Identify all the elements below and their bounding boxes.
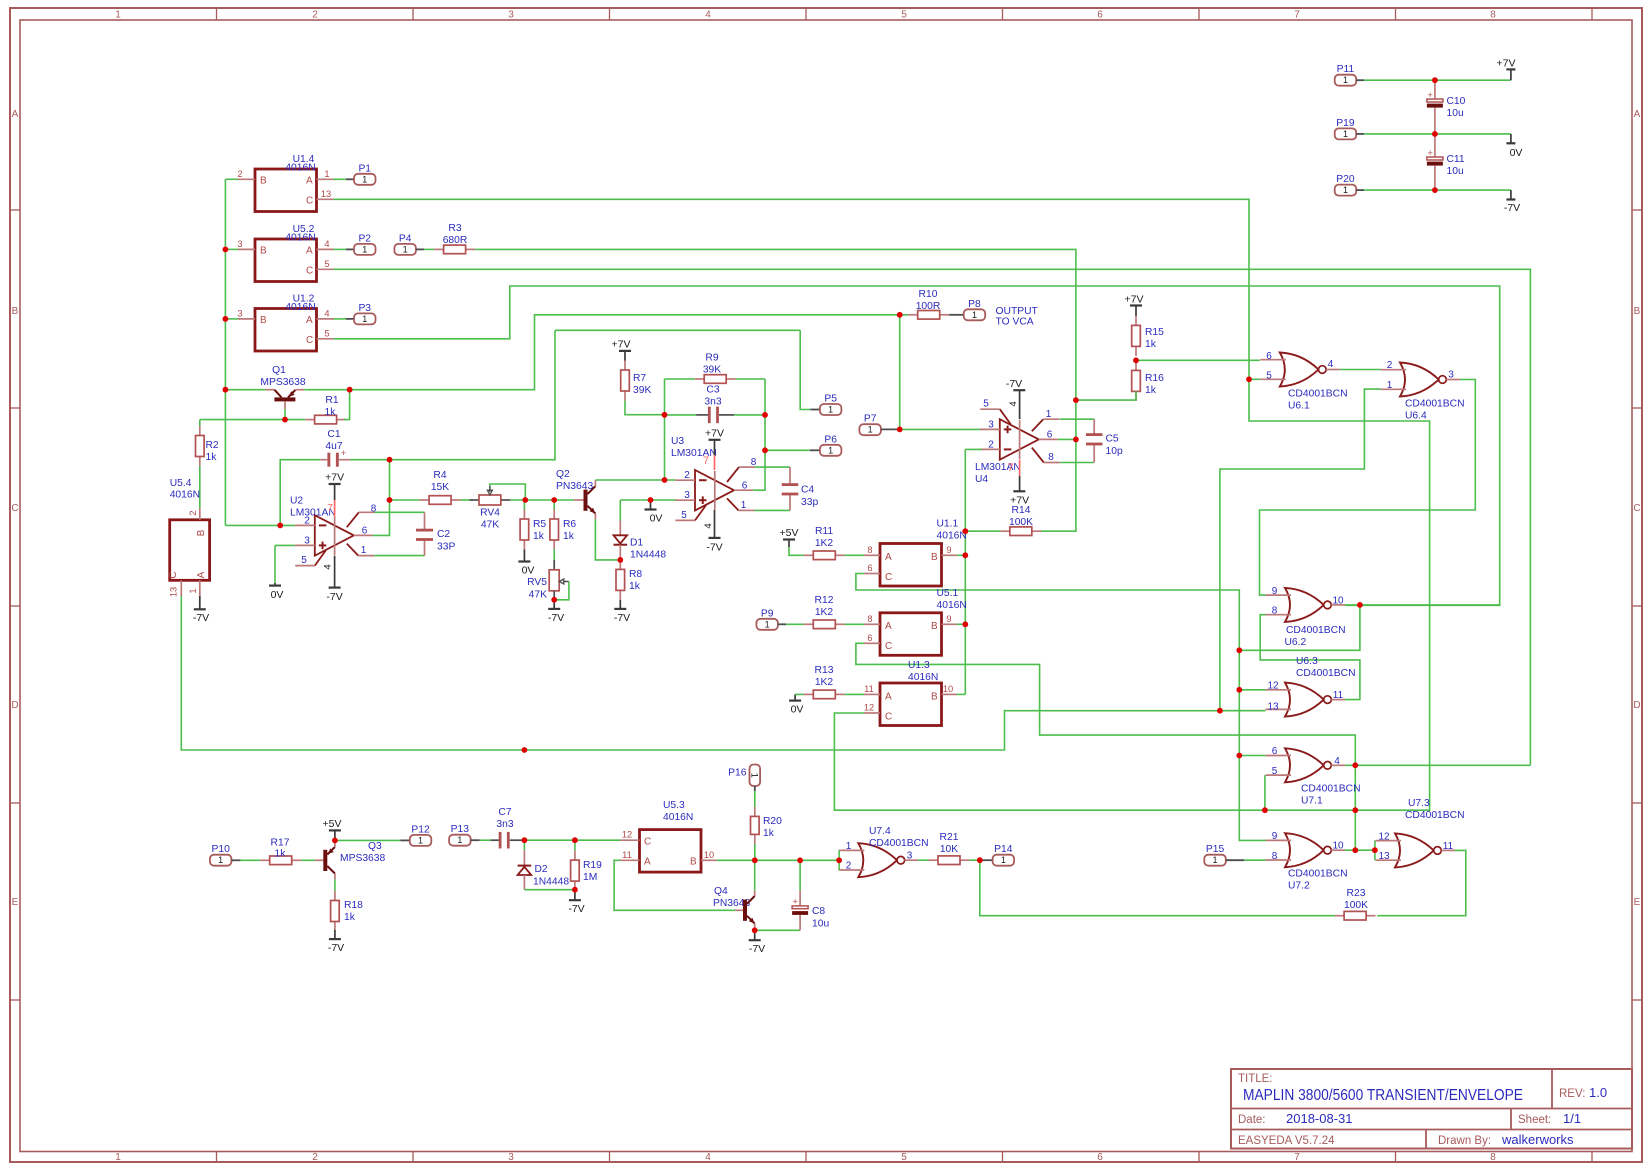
junction U5.1 pin9 <box>957 623 965 625</box>
svg-text:1: 1 <box>1343 185 1348 195</box>
svg-text:R16: R16 <box>1145 373 1164 384</box>
switch U5.1 4016N <box>880 613 942 656</box>
pad P11 <box>1335 75 1357 86</box>
junction dot: junction C11 bottom <box>1432 187 1438 193</box>
svg-text:7: 7 <box>327 502 333 514</box>
svg-text:8: 8 <box>1272 605 1278 616</box>
svg-text:R19: R19 <box>583 860 602 871</box>
nor gate U7.1 CD4001BCN <box>1285 748 1324 782</box>
wire U5.4 pin13 control net (to C7 / U6.3.13) <box>181 596 1265 750</box>
power +5V (Q3 emitter) <box>334 830 336 840</box>
svg-text:Date:: Date: <box>1238 1114 1266 1126</box>
junction dot: junction P6 tap <box>762 447 768 453</box>
wire P5 riser to C1 net <box>555 329 800 331</box>
svg-text:CD4001BCN: CD4001BCN <box>1301 784 1361 795</box>
resistor R19 1M <box>574 840 576 850</box>
svg-text:2: 2 <box>188 510 198 515</box>
svg-text:1.0: 1.0 <box>1589 1085 1607 1100</box>
svg-text:CD4001BCN: CD4001BCN <box>1288 389 1348 400</box>
resistor R10 100R <box>908 314 918 316</box>
title block <box>1231 1069 1632 1149</box>
svg-text:P5: P5 <box>824 394 837 405</box>
diode D2 1N4448 <box>523 840 525 850</box>
svg-text:-7V: -7V <box>568 903 584 915</box>
svg-text:2: 2 <box>1387 360 1393 371</box>
svg-text:1: 1 <box>1343 75 1348 85</box>
wire C1 to R4 node <box>350 459 390 461</box>
junction dot: junction U7.1 pin6 <box>1236 753 1242 759</box>
svg-text:B: B <box>12 306 19 317</box>
resistor R15 1k <box>1135 316 1137 326</box>
svg-text:4: 4 <box>705 1152 711 1163</box>
capacitor C10 10u <box>1434 80 1436 99</box>
svg-text:7: 7 <box>703 455 709 467</box>
svg-text:A: A <box>885 691 892 702</box>
junction dot: junction R15/R16 <box>1133 357 1139 363</box>
wire summing riser (U4.2/R14/U1.1.9/U5.1.9/U1.3.10) <box>964 555 966 694</box>
opamp U4 LM301AN <box>1000 419 1039 460</box>
junction dot: junction R19 bottom <box>572 887 578 893</box>
svg-text:A: A <box>306 315 313 326</box>
svg-text:C: C <box>306 266 313 277</box>
wire U1.4 pin13 long net (to U6.1.5 / U7 area) <box>334 199 1430 810</box>
wire U3 pin3 rail <box>620 499 677 501</box>
svg-text:U3: U3 <box>671 436 684 447</box>
pad P7 <box>859 424 881 435</box>
svg-text:4016N: 4016N <box>937 600 967 611</box>
svg-text:D: D <box>1633 700 1640 711</box>
wire C7 node to R19/U5.3.12 <box>524 839 620 841</box>
svg-text:1: 1 <box>1343 129 1348 139</box>
svg-text:3: 3 <box>508 10 514 21</box>
junction dot: junction D1/Q2/R8 <box>617 557 623 563</box>
wire U6.2 out branch down to control net <box>1239 605 1360 650</box>
svg-text:R12: R12 <box>815 595 834 606</box>
svg-text:33p: 33p <box>801 497 818 508</box>
junction dot: junction R14 left (summing riser) <box>962 528 968 534</box>
pad P4 <box>394 244 416 255</box>
svg-text:9: 9 <box>946 614 951 624</box>
svg-text:U6.1: U6.1 <box>1288 401 1310 412</box>
svg-text:P7: P7 <box>864 414 877 425</box>
junction dot: junction C3/R9 left <box>662 477 668 483</box>
pad P6 <box>810 449 820 451</box>
svg-text:-7V: -7V <box>614 612 630 624</box>
wire P19 to 0V <box>1364 133 1511 135</box>
svg-text:-7V: -7V <box>749 943 765 955</box>
svg-text:1: 1 <box>362 174 367 184</box>
svg-text:P1: P1 <box>358 163 371 174</box>
pad P14 <box>980 859 993 861</box>
svg-text:4: 4 <box>705 10 711 21</box>
svg-text:13: 13 <box>169 587 179 597</box>
svg-text:3: 3 <box>237 239 242 249</box>
junction U1.2 pin3 <box>225 318 238 320</box>
svg-text:PN3643: PN3643 <box>556 481 593 492</box>
svg-text:5: 5 <box>901 1152 907 1163</box>
nor gate U6.3 CD4001BCN <box>1285 683 1324 717</box>
svg-text:1N4448: 1N4448 <box>533 877 569 888</box>
svg-text:A: A <box>885 621 892 632</box>
svg-text:P16: P16 <box>728 767 747 778</box>
svg-text:3: 3 <box>684 490 690 501</box>
svg-text:12: 12 <box>1267 681 1279 692</box>
svg-text:U4: U4 <box>975 474 988 485</box>
wire RV4 wiper to track end <box>490 484 525 500</box>
svg-text:13: 13 <box>1267 701 1279 712</box>
wire U1.3 pin10 to summing riser end <box>957 693 965 695</box>
svg-text:8: 8 <box>1490 10 1496 21</box>
svg-text:7: 7 <box>1294 10 1300 21</box>
svg-text:8: 8 <box>867 545 872 555</box>
resistor R6 1k <box>553 500 555 510</box>
svg-text:3n3: 3n3 <box>496 819 513 830</box>
wire R15/R16 node to U6.1 pin6 <box>1136 359 1260 361</box>
svg-text:C11: C11 <box>1447 154 1465 165</box>
svg-text:R9: R9 <box>705 353 718 364</box>
svg-text:4: 4 <box>703 523 714 528</box>
junction U5.2 pin3 <box>225 248 238 250</box>
pad P15 <box>1204 855 1226 866</box>
junction U6.3 pin12 <box>1239 689 1265 691</box>
svg-text:P3: P3 <box>358 303 371 314</box>
svg-text:1k: 1k <box>629 581 641 592</box>
svg-text:C: C <box>11 503 18 514</box>
svg-text:-7V: -7V <box>326 591 342 603</box>
svg-text:3: 3 <box>988 419 994 430</box>
nor gate U7.3 CD4001BCN <box>1395 833 1434 867</box>
svg-text:P20: P20 <box>1336 174 1355 185</box>
nor gate U6.1 CD4001BCN <box>1280 353 1319 387</box>
junction dot: junction C11 top <box>1432 131 1438 137</box>
wire U5.2 pin5 long net riser <box>334 269 1531 765</box>
svg-text:P14: P14 <box>994 844 1013 855</box>
switch U1.1 4016N <box>880 544 942 587</box>
wire U7.3 out to R23 <box>1377 850 1466 915</box>
junction dot: junction C3/R9 right <box>762 412 768 418</box>
junction dot: junction P7 node <box>897 427 903 433</box>
svg-text:7: 7 <box>1007 462 1013 474</box>
svg-text:CD4001BCN: CD4001BCN <box>1288 869 1348 880</box>
svg-text:P10: P10 <box>211 844 230 855</box>
junction dot: junction Q4 emitter / C8 / -7V <box>752 927 758 933</box>
svg-text:-7V: -7V <box>706 541 722 553</box>
svg-text:1k: 1k <box>763 828 775 839</box>
svg-text:LM301AN: LM301AN <box>975 462 1021 473</box>
pad P12 <box>400 839 410 841</box>
power -7V (U2 pin4) <box>334 556 336 588</box>
resistor R18 1k <box>334 891 336 901</box>
nor gate U6.2 CD4001BCN <box>1285 588 1324 622</box>
svg-text:1: 1 <box>765 619 770 629</box>
svg-text:C: C <box>306 335 313 346</box>
svg-text:-7V: -7V <box>1504 202 1520 214</box>
pad P2 <box>334 248 347 250</box>
junction U6.1 pin5 (U1.4.13 net) <box>1249 378 1260 380</box>
svg-text:33P: 33P <box>437 542 455 553</box>
junction dot: junction U4 pin6/R3 riser <box>1073 437 1079 443</box>
wire U6.2 pin8 to U6.3 out (latch) <box>1260 615 1360 700</box>
svg-text:4016N: 4016N <box>285 302 315 313</box>
capacitor C11 10u <box>1434 134 1436 157</box>
svg-text:R13: R13 <box>815 665 834 676</box>
svg-text:U1.3: U1.3 <box>908 660 930 671</box>
power 0V (U3 pin3) <box>650 500 652 510</box>
wire U5.1 pin6 (to U7.1-out / U7.2-out column) <box>856 643 1355 850</box>
junction dot: junction C8 top <box>797 857 803 863</box>
wire U3 pin1 to C4 bottom <box>755 509 791 511</box>
junction dot: junction U7.1 pin5 / U1.4.13 net <box>1262 807 1268 813</box>
svg-text:1: 1 <box>362 314 367 324</box>
svg-text:4u7: 4u7 <box>325 441 342 452</box>
svg-text:Sheet:: Sheet: <box>1518 1114 1551 1126</box>
pad P19 <box>1335 128 1357 139</box>
wire U1.1 pin9 to summing riser <box>957 554 965 556</box>
wire U5.3 pin11 to Q4 base <box>614 860 735 910</box>
svg-text:U7.1: U7.1 <box>1301 796 1323 807</box>
capacitor C8 10u (polar) <box>799 890 801 906</box>
svg-text:C: C <box>168 571 179 578</box>
svg-text:13: 13 <box>1378 851 1390 862</box>
junction dot: junction U7.1 out / U5.1.6 column <box>1352 762 1358 768</box>
junction dot: junction R16/feedback riser <box>1073 397 1079 403</box>
svg-text:10u: 10u <box>812 919 829 930</box>
svg-text:walkerworks: walkerworks <box>1501 1132 1574 1147</box>
svg-text:10: 10 <box>1332 595 1344 606</box>
svg-text:-7V: -7V <box>1006 378 1022 390</box>
svg-text:4016N: 4016N <box>170 490 200 501</box>
svg-text:1k: 1k <box>1145 385 1157 396</box>
junction dot: junction C10 top <box>1432 77 1438 83</box>
power -7V (U5.4 pin1) <box>199 596 201 609</box>
svg-text:C: C <box>885 641 892 652</box>
power +7V (U4 pin7) <box>1019 460 1021 476</box>
svg-text:2: 2 <box>684 470 690 481</box>
svg-text:0V: 0V <box>271 589 284 601</box>
svg-text:1: 1 <box>115 1152 121 1163</box>
wire R3 to U4 feedback (net to R14) <box>475 249 1076 531</box>
svg-text:R3: R3 <box>448 223 461 234</box>
junction dot: junction U2 pin2 (summing node) <box>277 523 283 529</box>
svg-text:-7V: -7V <box>328 942 344 954</box>
svg-text:4: 4 <box>323 564 334 569</box>
svg-text:U2: U2 <box>290 496 303 507</box>
svg-text:RV5: RV5 <box>527 577 547 588</box>
svg-text:R11: R11 <box>815 526 833 537</box>
svg-text:U1.1: U1.1 <box>937 519 959 530</box>
svg-text:8: 8 <box>1048 452 1054 463</box>
svg-text:3n3: 3n3 <box>704 397 721 408</box>
svg-text:1: 1 <box>868 425 873 435</box>
svg-text:TITLE:: TITLE: <box>1238 1073 1273 1085</box>
svg-text:1k: 1k <box>275 849 287 860</box>
svg-text:C1: C1 <box>327 429 340 440</box>
pad P8 <box>949 314 964 316</box>
svg-text:C: C <box>306 196 313 207</box>
power -7V (RV5) <box>553 600 555 609</box>
junction dot: junction control net / U6.2 out branch <box>1236 647 1242 653</box>
svg-text:39K: 39K <box>633 385 651 396</box>
svg-text:B: B <box>690 857 697 868</box>
svg-text:U7.3: U7.3 <box>1408 798 1430 809</box>
svg-text:R10: R10 <box>919 289 938 300</box>
svg-text:P9: P9 <box>761 608 774 619</box>
switch U1.3 4016N <box>880 683 942 726</box>
wire U1.4 pin2 <box>225 178 238 180</box>
svg-text:1/1: 1/1 <box>1563 1111 1581 1126</box>
svg-text:1k: 1k <box>325 407 337 418</box>
resistor R16 1k <box>1135 361 1137 371</box>
wire U4 pin2 from R14 node <box>965 448 982 450</box>
svg-text:R7: R7 <box>633 373 646 384</box>
svg-text:1: 1 <box>972 310 977 320</box>
svg-text:R17: R17 <box>271 838 290 849</box>
opamp U2 LM301AN <box>315 515 354 556</box>
svg-text:LM301AN: LM301AN <box>671 448 717 459</box>
svg-text:A: A <box>885 552 892 563</box>
pad P9 <box>756 619 778 630</box>
pad P5 <box>800 330 810 409</box>
svg-text:15K: 15K <box>431 482 449 493</box>
svg-text:2: 2 <box>988 439 994 450</box>
svg-text:6: 6 <box>1097 10 1103 21</box>
svg-text:B: B <box>931 691 938 702</box>
diode D1 1N4448 <box>619 500 621 521</box>
svg-text:P8: P8 <box>968 299 981 310</box>
svg-text:2: 2 <box>846 861 852 872</box>
junction dot: junction Q1 base rail <box>282 417 288 423</box>
svg-text:10u: 10u <box>1447 108 1464 119</box>
svg-text:10: 10 <box>943 684 953 694</box>
svg-text:6: 6 <box>867 633 872 643</box>
junction dot: junction R6 tap <box>551 497 557 503</box>
wire Q2 collector to U3 pin2 <box>595 479 675 481</box>
svg-text:R5: R5 <box>533 519 546 530</box>
junction dot: junction C1/R4/output <box>387 457 393 463</box>
wire Q2 emitter to D1 cathode node <box>595 519 620 560</box>
svg-text:Q4: Q4 <box>714 886 728 897</box>
svg-text:Q3: Q3 <box>368 841 382 852</box>
wire U2 pin8 to C2 top <box>375 511 425 513</box>
wire Q4 emitter to C8 bottom <box>755 929 800 931</box>
svg-text:U7.4: U7.4 <box>869 826 891 837</box>
svg-text:5: 5 <box>1266 370 1272 381</box>
svg-text:+7V: +7V <box>1125 293 1144 305</box>
svg-text:R18: R18 <box>344 900 363 911</box>
svg-text:C7: C7 <box>498 807 511 818</box>
svg-text:+7V: +7V <box>1497 58 1516 70</box>
junction dot: junction U5.1 pin9 <box>962 621 968 627</box>
svg-text:12: 12 <box>864 703 874 713</box>
svg-text:R14: R14 <box>1012 505 1031 516</box>
svg-text:MPS3638: MPS3638 <box>260 377 305 388</box>
svg-text:10: 10 <box>1332 841 1344 852</box>
svg-text:C2: C2 <box>437 529 450 540</box>
svg-text:U7.2: U7.2 <box>1288 881 1310 892</box>
svg-text:4016N: 4016N <box>285 162 315 173</box>
wire R7 to C3/R9 left node <box>625 401 665 415</box>
power 0V (top right) <box>1510 134 1512 143</box>
resistor R13 1K2 <box>795 693 804 695</box>
svg-text:U5.4: U5.4 <box>170 478 192 489</box>
svg-text:5: 5 <box>324 259 329 269</box>
junction C8 top <box>799 860 801 890</box>
svg-text:1: 1 <box>846 841 852 852</box>
svg-text:1: 1 <box>457 835 462 845</box>
svg-text:2: 2 <box>312 10 318 21</box>
power -7V (top right) <box>1510 190 1512 199</box>
svg-text:C8: C8 <box>812 906 825 917</box>
wire R16 bottom to feedback node <box>1076 391 1136 400</box>
svg-text:R6: R6 <box>563 519 576 530</box>
svg-text:MAPLIN 3800/5600 TRANSIENT/ENV: MAPLIN 3800/5600 TRANSIENT/ENVELOPE <box>1243 1087 1523 1104</box>
svg-text:B: B <box>196 529 207 536</box>
svg-text:1: 1 <box>1387 380 1393 391</box>
svg-text:U5.3: U5.3 <box>663 800 685 811</box>
resistor R2 1k <box>199 420 201 426</box>
svg-text:0V: 0V <box>650 513 663 525</box>
capacitor C3 3n3 <box>696 414 710 416</box>
svg-text:CD4001BCN: CD4001BCN <box>869 838 929 849</box>
svg-text:5: 5 <box>301 555 307 566</box>
svg-text:1k: 1k <box>344 912 356 923</box>
svg-text:1k: 1k <box>533 531 545 542</box>
resistor R4 15K <box>390 499 420 501</box>
junction dot: junction C3/R9 left <box>662 412 668 418</box>
svg-text:B: B <box>260 246 267 257</box>
svg-text:1K2: 1K2 <box>815 607 834 618</box>
capacitor C7 3n3 <box>480 839 491 841</box>
svg-text:1N4448: 1N4448 <box>630 550 666 561</box>
svg-text:11: 11 <box>1333 690 1344 701</box>
switch U5.2 4016N <box>255 239 317 282</box>
svg-text:Q1: Q1 <box>272 365 286 376</box>
junction dot: transistor Q1 MPS3638 <box>223 387 229 393</box>
svg-text:P4: P4 <box>399 233 412 244</box>
junction dot: junction U6.1 pin5 (U1.4.13 net) <box>1246 376 1252 382</box>
wire U7.1 out (to U5.2.5 riser) <box>1345 764 1530 766</box>
svg-text:1: 1 <box>362 244 367 254</box>
resistor R23 100K <box>1335 915 1345 917</box>
svg-text:1: 1 <box>115 10 121 21</box>
wire D2 anode to R19 bottom <box>524 889 575 891</box>
svg-text:1k: 1k <box>1145 339 1157 350</box>
svg-text:2: 2 <box>312 1152 318 1163</box>
power 0V (U2 pin3) <box>274 583 276 586</box>
wire U4 pin6 output to feedback node <box>1058 438 1076 440</box>
wire U6.4 out to U6.2 pin9 <box>1260 380 1476 596</box>
junction dot: junction RV5 bottom <box>551 597 557 603</box>
svg-text:680R: 680R <box>443 235 468 246</box>
svg-text:100R: 100R <box>916 301 941 312</box>
resistor R8 1k <box>619 560 621 570</box>
svg-text:13: 13 <box>321 189 331 199</box>
wire U7.3 input bracket <box>1374 840 1376 860</box>
svg-text:39K: 39K <box>703 365 721 376</box>
svg-text:+: + <box>1427 148 1433 159</box>
svg-text:Drawn By:: Drawn By: <box>1438 1135 1491 1147</box>
switch U1.4 4016N <box>255 169 317 212</box>
svg-text:CD4001BCN: CD4001BCN <box>1296 668 1356 679</box>
svg-text:4: 4 <box>1008 401 1019 406</box>
wire U6.2 out (to U1.2.5 riser and latch) <box>1345 604 1500 606</box>
svg-text:+7V: +7V <box>325 472 344 484</box>
svg-text:+7V: +7V <box>705 427 724 439</box>
svg-text:REV:: REV: <box>1559 1088 1585 1100</box>
svg-text:9: 9 <box>1272 831 1278 842</box>
svg-text:1K2: 1K2 <box>815 538 834 549</box>
svg-text:1: 1 <box>828 445 833 455</box>
